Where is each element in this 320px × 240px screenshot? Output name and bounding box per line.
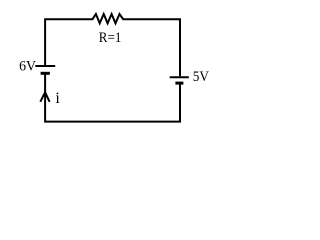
svg-text:i: i <box>55 90 60 107</box>
svg-text:5V: 5V <box>193 69 209 85</box>
svg-text:6V: 6V <box>19 59 36 75</box>
svg-text:R=1: R=1 <box>99 30 122 46</box>
